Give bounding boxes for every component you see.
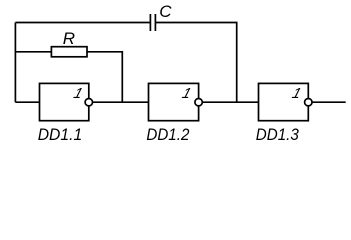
inverter DD1.1 output bubble <box>85 99 92 106</box>
capacitor C <box>150 14 155 31</box>
inverter DD1.3 body <box>259 83 309 120</box>
wire left lead of resistor R <box>15 51 51 53</box>
resistor R <box>51 47 87 57</box>
inverter DD1.3 output bubble <box>305 99 312 106</box>
inverter DD1.2 output bubble <box>195 99 202 106</box>
wire input to DD1.1 <box>15 101 39 103</box>
wire output of DD1.3 <box>312 101 346 103</box>
inverter DD1.1 body <box>40 83 89 120</box>
svg-text:1: 1 <box>180 86 193 102</box>
svg-text:1: 1 <box>72 86 85 102</box>
svg-text:C: C <box>159 2 172 21</box>
wire DD1.2 output to DD1.3 input <box>202 101 258 103</box>
inverter DD1.2 body <box>149 83 199 120</box>
wire top feedback rail left segment <box>15 22 150 24</box>
wire left vertical rail <box>14 23 16 103</box>
wire right lead of resistor R down to DD1.1 output node <box>87 52 122 102</box>
svg-text:DD1.3: DD1.3 <box>256 125 299 144</box>
svg-text:DD1.1: DD1.1 <box>38 125 82 144</box>
wire from capacitor C to node between DD1.2 and DD1.3 <box>155 23 236 103</box>
svg-text:DD1.2: DD1.2 <box>146 125 189 144</box>
svg-text:R: R <box>63 29 75 48</box>
wire DD1.1 output to DD1.2 input <box>93 101 149 103</box>
svg-text:1: 1 <box>290 86 303 102</box>
